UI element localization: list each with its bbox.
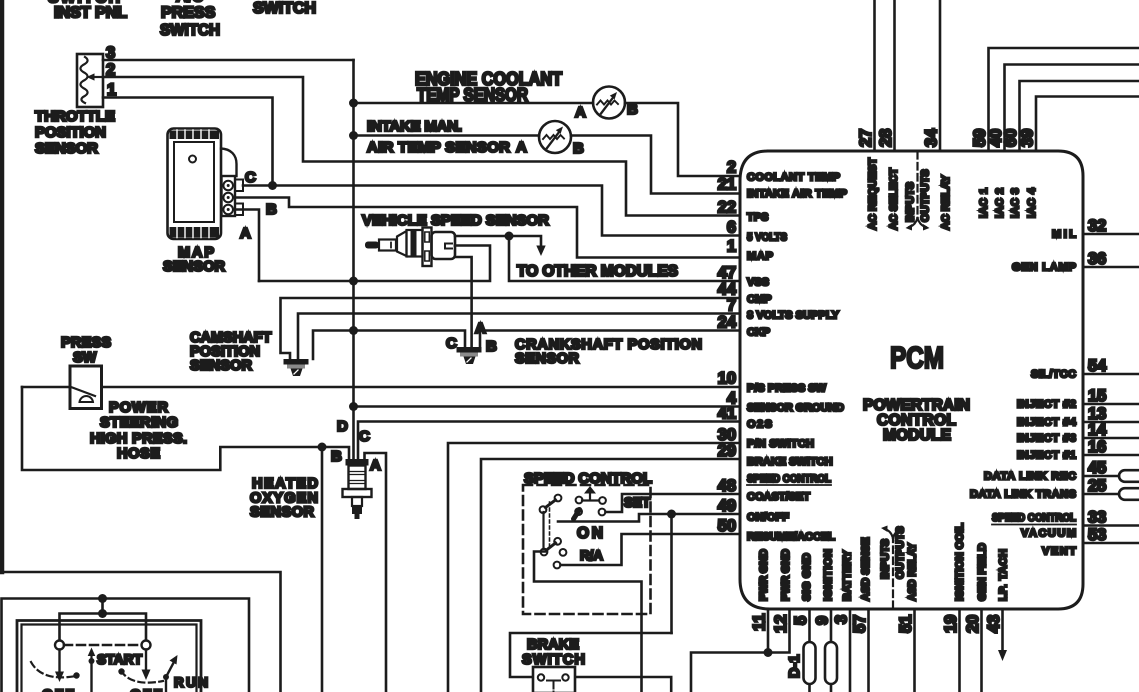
label SPEED CONTROL (PCM right) xyxy=(992,512,1076,524)
pin number 1 (TPS) xyxy=(107,81,116,99)
label BRAKE SWITCH (PCM) xyxy=(747,456,833,468)
wire: pin49 branch down to brake switch box xyxy=(670,514,673,633)
svg-text:AC SELECT: AC SELECT xyxy=(888,168,900,230)
svg-text:D: D xyxy=(337,418,348,435)
pin number 12 (PCM bottom) xyxy=(772,615,790,633)
wire: MAP B signal to PCM pin1 MAP xyxy=(235,198,740,258)
svg-text:BRAKE SWITCH: BRAKE SWITCH xyxy=(747,456,833,468)
junction dot (102.5,598.5) xyxy=(98,594,107,603)
label ON xyxy=(577,525,603,542)
wire: left-edge cut wire (top) xyxy=(0,0,4,572)
svg-text:A: A xyxy=(575,104,586,121)
pin number 4 (PCM left) xyxy=(727,390,737,408)
speed control dashed box xyxy=(523,485,651,614)
label GEN FIELD (PCM bottom rotated) xyxy=(977,543,989,601)
svg-text:INPUTS: INPUTS xyxy=(905,182,917,222)
wire: PCM pin60 IAC3 up right xyxy=(1020,81,1139,151)
svg-text:7: 7 xyxy=(727,297,736,315)
wire: bus to PCM pin4 sensor ground xyxy=(354,405,741,408)
label THROTTLE POSITION SENSOR xyxy=(35,108,115,157)
svg-text:16: 16 xyxy=(1088,438,1106,456)
label C (crank) xyxy=(446,335,457,352)
label MAP (PCM) xyxy=(747,251,773,263)
crankshaft position sensor body xyxy=(457,347,482,364)
pin number 44 (PCM left) xyxy=(718,281,737,299)
ignition switch double box xyxy=(17,621,201,692)
label D (O2) xyxy=(337,418,348,435)
junction dot (353.5,135.5) xyxy=(349,131,358,140)
svg-text:11: 11 xyxy=(751,614,769,631)
pin number 48 (PCM left) xyxy=(718,477,736,495)
wire: speed control common down to bottom xyxy=(534,552,642,692)
label COAST/SET (PCM) xyxy=(747,491,810,503)
svg-text:60: 60 xyxy=(1002,129,1020,147)
wire: PCM pin12 PWR GND joins pin11 xyxy=(768,609,790,653)
pin number 32 (PCM right) xyxy=(1088,217,1106,235)
wire: cam middle terminal to PCM pin7 8 volts xyxy=(298,314,740,360)
svg-text:TPS: TPS xyxy=(747,212,768,224)
wire: PCM pin57 ASD SENSE down xyxy=(867,609,870,692)
svg-text:SENSOR: SENSOR xyxy=(250,505,315,521)
label SPEED CONTROL (PCM) xyxy=(747,473,831,485)
pin number 54 (PCM right) xyxy=(1088,357,1107,375)
label GEN LAMP (PCM right) xyxy=(1012,262,1076,274)
label INPUTS (PCM bottom rotated) xyxy=(880,539,892,579)
label START xyxy=(97,652,143,667)
svg-text:SWITCH: SWITCH xyxy=(522,652,585,668)
pin number 6 (PCM left) xyxy=(727,219,736,237)
svg-text:22: 22 xyxy=(718,199,736,217)
label IAC 2 (PCM top rotated) xyxy=(994,188,1006,218)
label D-1 rotated xyxy=(787,655,803,678)
camshaft position sensor body xyxy=(284,359,309,376)
label CMP (PCM) xyxy=(747,294,771,306)
wire: PCM pin28 AC SELECT up xyxy=(893,0,896,151)
inputs/outputs dashed marker (top) xyxy=(906,152,930,231)
svg-text:21: 21 xyxy=(718,176,736,194)
label C (MAP) xyxy=(245,169,256,186)
pin number 33 (PCM right) xyxy=(1088,509,1106,527)
speed control lower lever and contacts xyxy=(541,502,567,568)
svg-text:50: 50 xyxy=(718,517,736,535)
svg-text:COOLANT TEMP: COOLANT TEMP xyxy=(747,172,840,184)
svg-text:ASD SENSE: ASD SENSE xyxy=(860,537,872,601)
svg-text:I.P. TACH: I.P. TACH xyxy=(998,549,1010,601)
svg-text:INJECT #1: INJECT #1 xyxy=(1017,450,1076,462)
wire: PCM pin59 IAC1 up right xyxy=(989,48,1139,151)
label PRESS xyxy=(161,5,216,22)
label B (MAP) xyxy=(266,201,277,218)
svg-text:B: B xyxy=(573,140,584,157)
junction dot (272.5,185.5) xyxy=(268,181,277,190)
svg-text:OUTPUTS: OUTPUTS xyxy=(895,526,907,579)
pin number 24 (PCM left) xyxy=(718,314,737,332)
label INPUTS (PCM top rotated) xyxy=(905,182,917,222)
pin number 15 (PCM right) xyxy=(1088,387,1106,405)
svg-text:47: 47 xyxy=(718,264,736,282)
wire: coolant B to PCM pin2 xyxy=(625,103,740,176)
wire: PCM pin9 IGNITION down with splice xyxy=(825,609,837,692)
pin number 60 (PCM top) xyxy=(1002,129,1020,147)
label OUTPUTS (PCM bottom rotated) xyxy=(895,526,907,579)
pin number 39 (PCM top) xyxy=(1019,129,1037,147)
pin number 16 (PCM right) xyxy=(1088,438,1106,456)
svg-text:25: 25 xyxy=(1088,477,1106,495)
pin number 25 (PCM right) xyxy=(1088,477,1106,495)
label COOLANT TEMP (PCM) xyxy=(747,172,840,184)
wire: sensor ground bus vertical xyxy=(352,60,355,459)
label HEATED OXYGEN SENSOR xyxy=(250,476,318,521)
wire: VSS signal to PCM pin47 VSS xyxy=(509,236,740,281)
svg-text:THROTTLE: THROTTLE xyxy=(35,108,115,125)
svg-text:POSITION: POSITION xyxy=(35,124,106,141)
svg-text:SIL/TCC: SIL/TCC xyxy=(1031,369,1076,381)
label SWITCH cut xyxy=(48,0,120,7)
pin number 11 (PCM bottom) xyxy=(751,614,769,631)
svg-text:HOSE: HOSE xyxy=(117,446,160,462)
svg-text:3: 3 xyxy=(833,615,851,624)
ignition right OFF arrow xyxy=(142,650,151,681)
svg-text:5 VOLTS: 5 VOLTS xyxy=(747,232,787,244)
pin number 10 (PCM left) xyxy=(718,370,736,388)
junction dot (353.5,281) xyxy=(349,277,358,286)
svg-text:A: A xyxy=(516,139,527,156)
svg-text:IGNITION: IGNITION xyxy=(823,549,835,601)
svg-text:C: C xyxy=(359,428,370,445)
wire: PCM pin20 GEN FIELD down xyxy=(980,609,983,692)
svg-text:RESUME/ACCEL: RESUME/ACCEL xyxy=(747,531,835,543)
speed control common T symbol xyxy=(576,486,606,504)
svg-text:MIL: MIL xyxy=(1052,229,1076,241)
svg-text:P/S PRESS SW: P/S PRESS SW xyxy=(747,383,827,395)
intake man. air temp sensor circle xyxy=(539,121,571,153)
wire: left edge L-wire y=598.5 to x=249 down to bottom xyxy=(2,599,250,692)
svg-text:6: 6 xyxy=(727,219,736,237)
svg-text:43: 43 xyxy=(985,615,1003,633)
pin number 19 (PCM bottom) xyxy=(942,615,960,633)
svg-text:O2S: O2S xyxy=(747,419,772,431)
pin number 20 (PCM bottom) xyxy=(964,615,982,633)
svg-text:A: A xyxy=(475,320,486,337)
label AC RELAY (PCM top rotated) xyxy=(940,174,952,230)
label I.P. TACH (PCM bottom rotated) xyxy=(998,549,1010,601)
svg-text:19: 19 xyxy=(942,615,960,633)
svg-text:57: 57 xyxy=(851,615,869,633)
pin number 43 (PCM bottom) xyxy=(985,615,1003,633)
wire: PCM pin25 DATA LINK TRANS with connector xyxy=(1083,488,1139,500)
label INTAKE MAN. AIR TEMP SENSOR xyxy=(367,118,510,156)
wire: PCM pin15 INJECT2 right xyxy=(1083,403,1139,406)
wire: PCM pin11 PWR GND down xyxy=(767,609,770,653)
vehicle speed sensor body xyxy=(365,228,455,267)
pin number 1 (PCM left) xyxy=(727,238,736,256)
junction dot (509,236) xyxy=(505,232,514,241)
label DATA LINK REC (PCM right) xyxy=(984,471,1076,483)
label SWITCH ac xyxy=(160,22,220,39)
svg-text:SENSOR: SENSOR xyxy=(163,259,226,275)
svg-text:24: 24 xyxy=(718,314,737,332)
svg-text:10: 10 xyxy=(718,370,736,388)
label SIG GND (PCM bottom rotated) xyxy=(801,553,813,601)
pin number 36 (PCM right) xyxy=(1088,250,1106,268)
label IGNITION (PCM bottom rotated) xyxy=(823,549,835,601)
pin number 40 (PCM top) xyxy=(987,129,1005,147)
svg-text:DATA LINK REC: DATA LINK REC xyxy=(984,471,1076,483)
svg-text:B: B xyxy=(331,448,342,465)
svg-text:B: B xyxy=(486,338,497,355)
svg-text:8 VOLTS SUPPLY: 8 VOLTS SUPPLY xyxy=(747,310,840,322)
svg-text:IAC 3: IAC 3 xyxy=(1010,188,1022,218)
wire: cam right terminal ground to crank C xyxy=(313,331,465,360)
pin number 13 (PCM right) xyxy=(1088,405,1106,423)
svg-text:2: 2 xyxy=(727,159,736,177)
svg-text:A: A xyxy=(370,457,381,474)
svg-text:BATTERY: BATTERY xyxy=(842,550,854,601)
label SENSOR GROUND (PCM) xyxy=(747,402,844,414)
svg-text:INTAKE AIR TEMP: INTAKE AIR TEMP xyxy=(747,188,847,200)
label B (O2) xyxy=(331,448,342,465)
label B (crank) xyxy=(486,338,497,355)
underline SPEED CONTROL (right) xyxy=(992,524,1076,526)
engine coolant temp sensor circle xyxy=(593,87,625,119)
svg-text:RUN: RUN xyxy=(174,675,208,690)
underline SPEED CONTROL (left) xyxy=(747,484,831,486)
svg-text:IAC 4: IAC 4 xyxy=(1026,187,1038,218)
svg-text:54: 54 xyxy=(1088,357,1107,375)
ignition left OFF arrow xyxy=(55,650,64,683)
svg-text:VEHICLE SPEED SENSOR: VEHICLE SPEED SENSOR xyxy=(362,212,549,229)
svg-text:33: 33 xyxy=(1088,509,1106,527)
svg-text:TO OTHER MODULES: TO OTHER MODULES xyxy=(517,263,678,280)
svg-text:OUTPUTS: OUTPUTS xyxy=(920,169,932,222)
label SET xyxy=(624,495,651,510)
wire: PCM pin14 INJECT3 right xyxy=(1083,437,1139,440)
pin number 49 (PCM left) xyxy=(718,497,736,515)
ignition RUN lever xyxy=(163,655,178,692)
label A/C cut xyxy=(176,0,204,6)
throttle position sensor wiper arrow xyxy=(87,73,104,80)
svg-text:IGNITION COIL: IGNITION COIL xyxy=(954,523,966,601)
label VACUUM (PCM right) xyxy=(1021,528,1076,540)
wire: PCM pin30 P/N switch down to bottom xyxy=(448,443,740,692)
label A (crank) xyxy=(475,320,486,337)
label PCM (big) xyxy=(890,340,944,375)
svg-text:OFF: OFF xyxy=(42,686,74,692)
svg-text:51: 51 xyxy=(897,615,915,633)
svg-text:SWITCH: SWITCH xyxy=(253,0,316,17)
label MAP SENSOR xyxy=(163,245,226,275)
throttle position sensor connector box xyxy=(77,54,103,107)
wire: PCM pin32 MIL right xyxy=(1083,233,1139,236)
svg-text:1: 1 xyxy=(727,238,736,256)
pin number 21 (PCM left) xyxy=(718,176,736,194)
wire: PCM pin54 SIL/TCC right xyxy=(1083,373,1139,376)
wire: PCM pin33 VACUUM right xyxy=(1083,524,1139,527)
svg-text:SPEED CONTROL: SPEED CONTROL xyxy=(747,473,831,485)
label OFF left xyxy=(42,686,74,692)
svg-text:A: A xyxy=(240,225,251,242)
wire: VSS signal xyxy=(455,235,509,238)
label ASD SENSE (PCM bottom rotated) xyxy=(860,537,872,601)
svg-text:GEN FIELD: GEN FIELD xyxy=(977,543,989,601)
wire: PCM pin27 AC REQUEST up xyxy=(873,0,876,151)
svg-text:PWR GND: PWR GND xyxy=(780,549,792,601)
pin number 27 (PCM top) xyxy=(857,129,875,147)
junction dot (353.5,406.5) xyxy=(349,402,358,411)
svg-text:27: 27 xyxy=(857,129,875,147)
pin number 3 (PCM bottom) xyxy=(833,615,851,624)
svg-text:ASD RELAY: ASD RELAY xyxy=(907,542,919,601)
svg-text:20: 20 xyxy=(964,615,982,633)
wire: ignition feed y=613.5 xyxy=(60,599,147,640)
svg-text:29: 29 xyxy=(718,442,736,460)
label OUTPUTS (PCM top rotated) xyxy=(920,169,932,222)
svg-text:41: 41 xyxy=(718,405,736,423)
label ASD RELAY (PCM bottom rotated) xyxy=(907,542,919,601)
pin number 47 (PCM left) xyxy=(718,264,736,282)
junction dot (102.5,613.5) xyxy=(98,609,107,618)
wire: MAP A sensor ground down to bus xyxy=(235,210,259,282)
inputs/outputs dashed marker (bottom) xyxy=(881,526,905,609)
label PRESS SW xyxy=(61,335,111,366)
label A intake xyxy=(516,139,527,156)
pin number 7 (PCM left) xyxy=(727,297,736,315)
wire: O2 C signal to PCM pin41 O2S xyxy=(358,422,740,460)
pin number 29 (PCM left) xyxy=(718,442,736,460)
wire: TPS pin2 to PCM pin22 TPS xyxy=(103,77,740,216)
wire: press switch to PCM pin10 xyxy=(102,386,741,389)
label PWR GND (PCM bottom rotated) xyxy=(780,549,792,601)
svg-text:12: 12 xyxy=(772,615,790,633)
label MIL (PCM right) xyxy=(1052,229,1076,241)
label IAC 1 (PCM top rotated) xyxy=(978,188,990,218)
svg-text:36: 36 xyxy=(1088,250,1106,268)
svg-text:C: C xyxy=(446,335,457,352)
svg-text:34: 34 xyxy=(923,128,941,147)
svg-text:PWR GND: PWR GND xyxy=(758,549,770,601)
wire: PWR GND left and down to bottom xyxy=(691,653,768,692)
label SPEED CONTROL title xyxy=(524,470,652,487)
svg-text:CKP: CKP xyxy=(747,327,770,339)
svg-text:OFF: OFF xyxy=(130,686,162,692)
wire: PCM pin53 VENT right xyxy=(1083,542,1139,545)
svg-text:15: 15 xyxy=(1088,387,1106,405)
junction dot (671.5,514) xyxy=(667,510,676,519)
pin number 45 (PCM right) xyxy=(1088,459,1106,477)
pin number 57 (PCM bottom) xyxy=(851,615,869,633)
svg-text:START: START xyxy=(97,652,143,667)
wire: press switch left lead xyxy=(22,386,70,389)
svg-text:SENSOR GROUND: SENSOR GROUND xyxy=(747,402,844,414)
junction dot (353.5,103) xyxy=(349,99,358,108)
label IAC 3 (PCM top rotated) xyxy=(1010,188,1022,218)
label C (O2) xyxy=(359,428,370,445)
label VSS (PCM) xyxy=(747,277,769,289)
svg-text:45: 45 xyxy=(1088,459,1106,477)
svg-text:AC RELAY: AC RELAY xyxy=(940,174,952,230)
label VENT (PCM right) xyxy=(1042,546,1076,558)
svg-text:INST PNL: INST PNL xyxy=(54,5,127,22)
label INTAKE AIR TEMP (PCM) xyxy=(747,188,847,200)
svg-text:INPUTS: INPUTS xyxy=(880,539,892,579)
svg-text:SPEED CONTROL: SPEED CONTROL xyxy=(992,512,1076,524)
label DATA LINK TRANS (PCM right) xyxy=(970,489,1076,501)
svg-text:48: 48 xyxy=(718,477,736,495)
svg-text:STEERING: STEERING xyxy=(100,415,178,431)
svg-text:9: 9 xyxy=(814,616,832,625)
label B coolant xyxy=(627,101,638,118)
label OFF right xyxy=(130,686,162,692)
label INJECT #3 (PCM right) xyxy=(1017,433,1076,445)
svg-text:SENSOR: SENSOR xyxy=(35,140,98,157)
svg-text:B: B xyxy=(266,201,277,218)
pin number 50 (PCM left) xyxy=(718,517,736,535)
wire: PCM pin29 brake switch down to bottom xyxy=(481,459,740,692)
label BRAKE SWITCH xyxy=(522,637,585,668)
label B intake xyxy=(573,140,584,157)
MAP sensor body xyxy=(168,129,244,240)
wire: PCM pin5 SIG GND down with splice D-1 xyxy=(804,609,816,692)
PCM powertrain control module outline xyxy=(740,151,1083,609)
label SIL/TCC (PCM right) xyxy=(1031,369,1076,381)
label RUN xyxy=(174,675,208,690)
junction dot (768,652.5) xyxy=(764,648,773,657)
wire: PCM pin13 INJECT4 right xyxy=(1083,421,1139,424)
svg-text:SWITCH: SWITCH xyxy=(160,22,220,39)
wire: PCM pin34 AC RELAY up xyxy=(939,0,942,151)
ignition contact circle left xyxy=(55,641,64,650)
svg-text:14: 14 xyxy=(1088,421,1107,439)
pin number 59 (PCM top) xyxy=(971,129,989,147)
wire+arrow: TO OTHER MODULES branch xyxy=(509,236,546,256)
pin number 30 (PCM left) xyxy=(718,426,736,444)
wire: PCM pin19 IGNITION COIL down xyxy=(958,609,961,692)
label CRANKSHAFT POSITION SENSOR xyxy=(515,337,702,367)
wire: PCM pin3 BATTERY down xyxy=(849,609,852,692)
svg-text:IAC 1: IAC 1 xyxy=(978,188,990,218)
label P/N SWITCH (PCM) xyxy=(747,438,814,450)
label RESUME/ACCEL (PCM) xyxy=(747,531,835,543)
label 8 VOLTS SUPPLY (PCM) xyxy=(747,310,840,322)
label BATTERY (PCM bottom rotated) xyxy=(842,550,854,601)
wire: VSS third terminal down to crank A xyxy=(455,257,472,347)
wire: MAP C 5 volts to PCM pin6 xyxy=(243,186,740,236)
pin number 22 (PCM left) xyxy=(718,199,736,217)
label INJECT #4 (PCM right) xyxy=(1017,417,1077,429)
pin number 53 (PCM right) xyxy=(1088,526,1106,544)
svg-text:ON/OFF: ON/OFF xyxy=(747,512,789,524)
label AC SELECT (PCM top rotated) xyxy=(888,168,900,230)
svg-text:49: 49 xyxy=(718,497,736,515)
svg-text:32: 32 xyxy=(1088,217,1106,235)
svg-text:P/N SWITCH: P/N SWITCH xyxy=(747,438,814,450)
svg-text:AC REQUEST: AC REQUEST xyxy=(867,158,879,230)
svg-text:AIR TEMP SENSOR: AIR TEMP SENSOR xyxy=(367,139,510,156)
svg-text:28: 28 xyxy=(877,129,895,147)
svg-text:MAP: MAP xyxy=(747,251,773,263)
wire: press switch return loop to O2 line xyxy=(22,387,349,470)
wire: intake B to PCM pin21 xyxy=(571,136,740,194)
wire: PCM pin39 IAC4 up right xyxy=(1036,97,1139,152)
label VEHICLE SPEED SENSOR xyxy=(362,212,549,229)
label POWER STEERING HIGH PRESS. HOSE xyxy=(90,400,187,462)
pin number 41 (PCM left) xyxy=(718,405,736,423)
svg-text:ON: ON xyxy=(577,525,603,542)
wire: PCM pin40 IAC2 up right xyxy=(1005,65,1139,152)
svg-text:PCM: PCM xyxy=(890,340,944,375)
svg-text:C: C xyxy=(245,169,256,186)
wire: SET contact to PCM pin48 xyxy=(606,494,741,512)
